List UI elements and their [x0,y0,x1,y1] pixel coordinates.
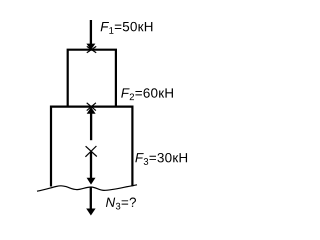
section mark x at step (F2 application point) [87,103,96,111]
reaction N3 arrow (downward, below break) [86,188,95,216]
section mark x at F1 application point [87,46,96,52]
force F1 arrow (downward onto top face) [86,20,95,50]
wavy break line at bottom cut [37,185,137,191]
label N3=? [106,198,136,210]
section mark x (cut section in lower box) [85,146,96,157]
internal force arrow (upward, inside lower box) [87,107,96,140]
internal force arrow (downward, from cut section) [87,152,96,185]
label F2=60kH [121,88,173,100]
label F3=30kH [135,153,187,165]
label F1=50kH [101,22,153,34]
upper box (top block of stepped bar) [68,50,116,107]
lower box (bottom block of stepped bar, open at bottom) [51,107,132,187]
